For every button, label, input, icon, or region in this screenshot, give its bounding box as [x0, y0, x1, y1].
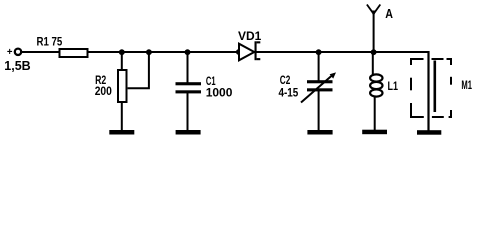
- capacitor C1: [176, 82, 202, 93]
- resistor R2: [118, 70, 127, 102]
- node: antenna / L1 junction: [371, 49, 377, 55]
- wire: terminal to R1: [22, 51, 59, 53]
- ground (C1): [176, 130, 201, 135]
- node: R2 top junction: [119, 49, 125, 55]
- inductor L1: [370, 74, 382, 96]
- wire: junction down to C1: [187, 52, 189, 83]
- svg-text:M1: M1: [461, 78, 472, 92]
- node: diode anode: [236, 49, 242, 55]
- svg-text:A: A: [385, 7, 393, 21]
- ground (R2): [109, 130, 134, 135]
- svg-text:1000: 1000: [206, 86, 233, 100]
- resistor R1: [60, 49, 88, 57]
- antenna A: [367, 5, 380, 17]
- wire: junction down to C2: [318, 52, 320, 81]
- svg-text:L1: L1: [388, 79, 399, 93]
- wire: antenna down to junction: [373, 14, 375, 54]
- wire: corner down into M1 to ground: [427, 51, 429, 131]
- svg-text:200: 200: [95, 84, 112, 98]
- wire: junction down to L1: [372, 52, 374, 75]
- ground (L1): [362, 130, 387, 135]
- svg-text:+: +: [7, 47, 13, 58]
- wire: tap junction down and left to R2 side: [128, 52, 149, 88]
- ground (M1): [417, 130, 441, 135]
- svg-text:R1 75: R1 75: [37, 34, 63, 48]
- M1 earphone element plate: [434, 61, 437, 113]
- diode VD1: [239, 41, 260, 60]
- node: C1 junction: [185, 49, 191, 55]
- battery terminal node: [15, 49, 21, 55]
- wire: C2 bottom to ground: [318, 91, 320, 131]
- svg-text:4-15: 4-15: [279, 85, 299, 99]
- variable capacitor C2: [301, 72, 336, 102]
- wire: diode to corner above M1: [255, 51, 430, 53]
- svg-text:VD1: VD1: [238, 29, 262, 43]
- wire: junction down to R2: [121, 52, 123, 70]
- svg-text:1,5В: 1,5В: [4, 58, 30, 73]
- wire: R1 to diode VD1: [89, 51, 241, 53]
- M1 dashed box: [411, 59, 451, 117]
- ground (C2): [307, 130, 332, 135]
- wire: L1 bottom to ground: [374, 96, 376, 132]
- node: R2 tap junction: [146, 49, 152, 55]
- wire: R2 bottom to ground: [121, 102, 123, 131]
- node: C2 junction: [316, 49, 322, 55]
- wire: C1 bottom to ground: [187, 93, 189, 131]
